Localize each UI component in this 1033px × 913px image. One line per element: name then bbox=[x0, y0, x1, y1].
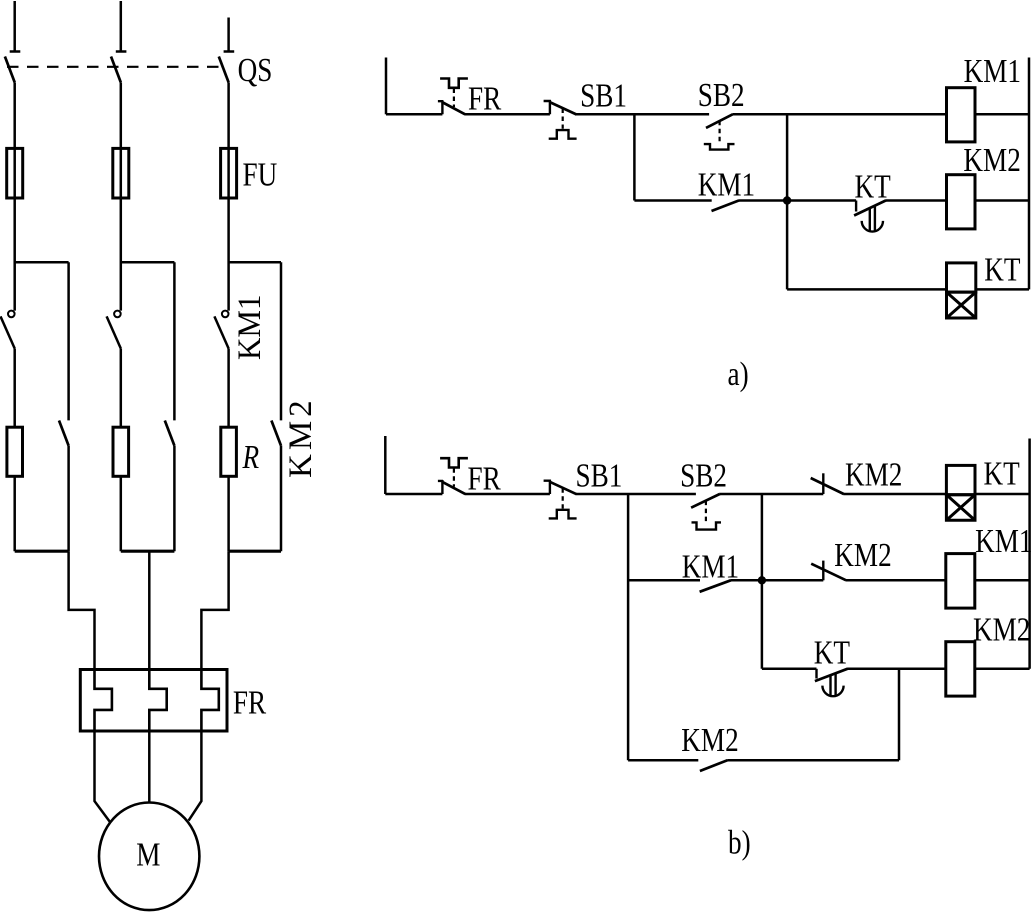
pushbutton SB1 NC b: actuator table bbox=[549, 510, 577, 519]
svg-text:KT: KT bbox=[814, 634, 850, 672]
svg-text:KM1: KM1 bbox=[230, 295, 267, 360]
svg-text:KM2: KM2 bbox=[973, 611, 1030, 649]
wire: rung b2 segment 2 bbox=[731, 579, 823, 582]
wire: phase 3 below KM1 bbox=[227, 349, 230, 552]
pushbutton SB1 NC b: dashed plunger bbox=[562, 488, 564, 508]
wire: L2 supply stub bbox=[120, 1, 123, 52]
wire: bypass branch 1 upper bbox=[67, 262, 70, 420]
wire: phase 3 vertical QS to branch bbox=[227, 82, 230, 310]
contactor KM2 bypass contact phase 3 bbox=[271, 421, 281, 446]
svg-text:FR: FR bbox=[468, 460, 502, 498]
wire: bypass branch 3 lower bbox=[280, 446, 283, 552]
svg-text:KM1: KM1 bbox=[682, 548, 739, 586]
FR NC contact b: dashed link bbox=[453, 468, 455, 487]
wire: rung a2 to right bus bbox=[975, 199, 1029, 202]
wire: phase 1 below KM1 bbox=[13, 349, 16, 552]
pushbutton SB1 NC: tick bbox=[544, 100, 551, 114]
QS linkage dashed line bbox=[7, 66, 221, 68]
svg-text:FU: FU bbox=[243, 156, 278, 194]
wire: phase 2 drop to FR bbox=[148, 551, 151, 669]
wire: rung a1 segment 3 bbox=[576, 113, 709, 116]
FR NC contact b: blade bbox=[442, 482, 465, 494]
wire: rung b1 segment 1 bbox=[385, 493, 442, 496]
knife switch QS pole 2 blade bbox=[111, 57, 121, 83]
pushbutton SB2 NO b: blade bbox=[691, 494, 720, 508]
wire: bypass branch 2 upper bbox=[173, 262, 176, 420]
coil KM2 a bbox=[947, 175, 976, 229]
contactor KM2 bypass contact phase 2 bbox=[165, 421, 175, 446]
contact KM2 NO (self-hold) b: blade bbox=[700, 760, 728, 771]
resistor R phase 3 bbox=[221, 427, 237, 476]
svg-text:KM1: KM1 bbox=[975, 522, 1032, 560]
resistor R phase 2 bbox=[113, 427, 129, 476]
svg-text:SB2: SB2 bbox=[698, 76, 745, 114]
wire: bottom connector phase 1 bbox=[15, 550, 69, 553]
pushbutton SB2 NO: dashed plunger bbox=[718, 121, 720, 144]
time relay coil KT a: body bbox=[947, 263, 976, 292]
wire: right bus b bbox=[1028, 439, 1031, 669]
FR NC contact a: tick bbox=[438, 100, 443, 114]
contactor KM2 bypass contact phase 1 bbox=[59, 421, 69, 446]
FR heater element phase 3 bbox=[201, 670, 218, 732]
svg-text:KT: KT bbox=[984, 455, 1020, 493]
wire: branch tee phase 3 bbox=[229, 261, 281, 264]
svg-text:M: M bbox=[136, 836, 160, 874]
thermal relay FR box bbox=[80, 670, 227, 732]
QS pole 3 fixed contact tick bbox=[224, 50, 235, 53]
wire: rung b1 to right bus bbox=[975, 493, 1030, 496]
pushbutton SB1 NC b: blade bbox=[550, 482, 577, 495]
node: junction dot a bbox=[783, 196, 791, 204]
wire: rung b1 segment 4 bbox=[720, 493, 824, 496]
svg-text:QS: QS bbox=[238, 51, 273, 89]
wire: rung a3 bbox=[787, 288, 946, 291]
time relay contact KT b: blade bbox=[815, 669, 848, 681]
FR NC contact a: blade bbox=[442, 102, 465, 114]
time relay contact KT a: blade bbox=[854, 200, 886, 215]
pushbutton SB1 NC: dashed plunger bbox=[562, 109, 564, 129]
time relay contact KT a: delay verticals bbox=[870, 205, 875, 231]
time relay coil KT b: X-box bbox=[946, 495, 975, 521]
interlock KM2 NC b1: blade bbox=[811, 478, 844, 494]
svg-text:FR: FR bbox=[233, 684, 267, 722]
pushbutton SB2 NO: actuator cup bbox=[704, 144, 735, 150]
svg-text:KM2: KM2 bbox=[834, 536, 891, 574]
contactor KM1 main contact phase 1 bbox=[1, 311, 15, 349]
wire: phase 1 drop to FR bbox=[69, 551, 95, 669]
contactor KM1 main contact phase 2 bbox=[107, 311, 121, 349]
time relay coil KT b: body bbox=[946, 465, 975, 494]
svg-text:KM1: KM1 bbox=[964, 52, 1021, 90]
wire: phase 2 below KM1 bbox=[120, 349, 123, 552]
time relay contact KT b: delay verticals bbox=[831, 674, 836, 697]
svg-text:KM2: KM2 bbox=[963, 141, 1020, 179]
svg-text:KT: KT bbox=[984, 251, 1020, 289]
node: junction a1 vertical bbox=[633, 114, 636, 200]
QS pole 1 fixed contact tick bbox=[10, 50, 21, 53]
interlock KM2 NC b1: tick bbox=[822, 473, 824, 494]
wire: rung b2 segment 3 bbox=[846, 579, 946, 582]
svg-text:b): b) bbox=[728, 824, 751, 862]
wire: motor lead 1 bbox=[95, 731, 110, 822]
wire: bypass branch 2 lower bbox=[173, 446, 176, 552]
svg-text:KM2: KM2 bbox=[283, 396, 319, 478]
pushbutton SB1 NC: blade bbox=[550, 102, 577, 115]
wire: bottom connector phase 3 bbox=[229, 550, 281, 553]
FR NC contact a: dashed link bbox=[453, 89, 455, 108]
pushbutton SB2 NO b: actuator cup bbox=[692, 522, 722, 529]
FR NC contact b: tick bbox=[438, 480, 443, 494]
wire: rung a1 segment 4 bbox=[733, 113, 947, 116]
wire: rung a2 segment 3 bbox=[886, 199, 947, 202]
contactor KM1 main contact phase 3 bbox=[214, 311, 228, 349]
wire: bypass branch 1 lower bbox=[67, 446, 70, 552]
knife switch QS pole 3 blade bbox=[219, 57, 229, 83]
coil KM2 b bbox=[946, 642, 975, 696]
svg-text:SB1: SB1 bbox=[580, 77, 627, 115]
svg-text:SB2: SB2 bbox=[680, 457, 727, 495]
svg-text:KT: KT bbox=[855, 168, 891, 206]
resistor R phase 1 bbox=[7, 427, 23, 476]
time relay contact KT a: delay arc bbox=[862, 221, 883, 232]
wire: rung b4 segment 2 bbox=[727, 759, 899, 762]
wire: rung b3 segment 2 bbox=[847, 668, 945, 671]
wire: L1 supply stub bbox=[13, 1, 16, 52]
FR NC contact b: heater bbox=[440, 458, 468, 467]
wire: rung b1 segment 2 bbox=[465, 493, 550, 496]
wire: rung a1 to right bus bbox=[975, 113, 1029, 116]
wire: phase 2 vertical QS to branch bbox=[120, 82, 123, 310]
svg-text:R: R bbox=[242, 438, 260, 476]
fuse FU phase 3 bbox=[221, 148, 237, 198]
time relay contact KT a: tick bbox=[855, 201, 857, 212]
interlock KM2 NC b2: tick bbox=[822, 561, 824, 581]
wire: phase 3 drop to FR bbox=[201, 551, 228, 669]
fuse FU phase 2 bbox=[113, 148, 129, 198]
wire: riser rung b4 to b3 bbox=[898, 669, 901, 761]
svg-text:a): a) bbox=[728, 355, 749, 393]
wire: branch tee phase 1 bbox=[15, 261, 69, 264]
FR NC contact a: heater bbox=[440, 79, 468, 88]
node: junction b1 vertical bbox=[627, 494, 630, 760]
wire: rung b1 segment 3 bbox=[576, 493, 696, 496]
wire: rung b3 segment 1 bbox=[762, 668, 817, 671]
wire: bypass branch 3 upper bbox=[280, 262, 283, 420]
wire: L3 supply stub bbox=[227, 18, 230, 52]
wire: rung a1 segment 1 bbox=[386, 113, 442, 116]
svg-text:SB1: SB1 bbox=[576, 457, 623, 495]
QS pole 2 fixed contact tick bbox=[116, 50, 127, 53]
wire: rung a2 segment 2 bbox=[739, 199, 856, 202]
pushbutton SB2 NO: blade bbox=[706, 114, 733, 128]
wire: motor lead 3 bbox=[189, 731, 202, 821]
time relay contact KT b: tick bbox=[815, 669, 817, 679]
wire: left rail a bbox=[385, 58, 388, 115]
wire: rung a2 segment 1 bbox=[634, 199, 711, 202]
wire: rung b2 segment 1 bbox=[628, 579, 700, 582]
svg-text:KM2: KM2 bbox=[845, 456, 902, 494]
FR heater element phase 1 bbox=[95, 670, 112, 732]
FR heater element phase 2 bbox=[149, 670, 166, 732]
wire: rung b4 segment 1 bbox=[628, 759, 698, 762]
wire: bottom connector phase 2 bbox=[121, 550, 175, 553]
coil KM1 a bbox=[947, 88, 976, 142]
node: junction a2 vertical bbox=[786, 114, 789, 289]
wire: left rail b bbox=[384, 436, 387, 494]
svg-text:FR: FR bbox=[468, 80, 502, 118]
wire: motor lead 2 bbox=[148, 731, 151, 803]
wire: phase 1 vertical QS to branch bbox=[13, 82, 16, 310]
svg-text:KM1: KM1 bbox=[698, 166, 755, 204]
wire: rung b1 segment 5 bbox=[843, 493, 946, 496]
interlock KM2 NC b2: blade bbox=[811, 564, 846, 581]
wire: rung b3 to right bus bbox=[975, 668, 1030, 671]
contact KM1 NO (self-hold) b: blade bbox=[700, 580, 732, 592]
fuse FU phase 1 bbox=[7, 148, 23, 198]
node: junction dot b bbox=[758, 576, 766, 584]
wire: right bus a bbox=[1028, 58, 1031, 290]
pushbutton SB1 NC: actuator table bbox=[549, 130, 577, 139]
time relay coil KT a: X-box bbox=[947, 292, 976, 318]
wire: rung a3 to right bus bbox=[976, 288, 1029, 291]
svg-text:KM2: KM2 bbox=[681, 721, 738, 759]
pushbutton SB1 NC b: tick bbox=[544, 480, 551, 494]
pushbutton SB2 NO b: dashed plunger bbox=[705, 501, 707, 522]
knife switch QS pole 1 blade bbox=[5, 57, 15, 83]
coil KM1 b bbox=[946, 554, 975, 609]
contact KM1 NO (self-hold) a: blade bbox=[712, 200, 740, 211]
motor M bbox=[99, 803, 199, 911]
wire: rung b2 to right bus bbox=[975, 579, 1030, 582]
wire: rung a1 segment 2 bbox=[465, 113, 550, 116]
time relay contact KT b: delay arc bbox=[822, 686, 843, 697]
wire: branch tee phase 2 bbox=[121, 261, 175, 264]
node: junction b2 vertical bbox=[761, 494, 764, 669]
